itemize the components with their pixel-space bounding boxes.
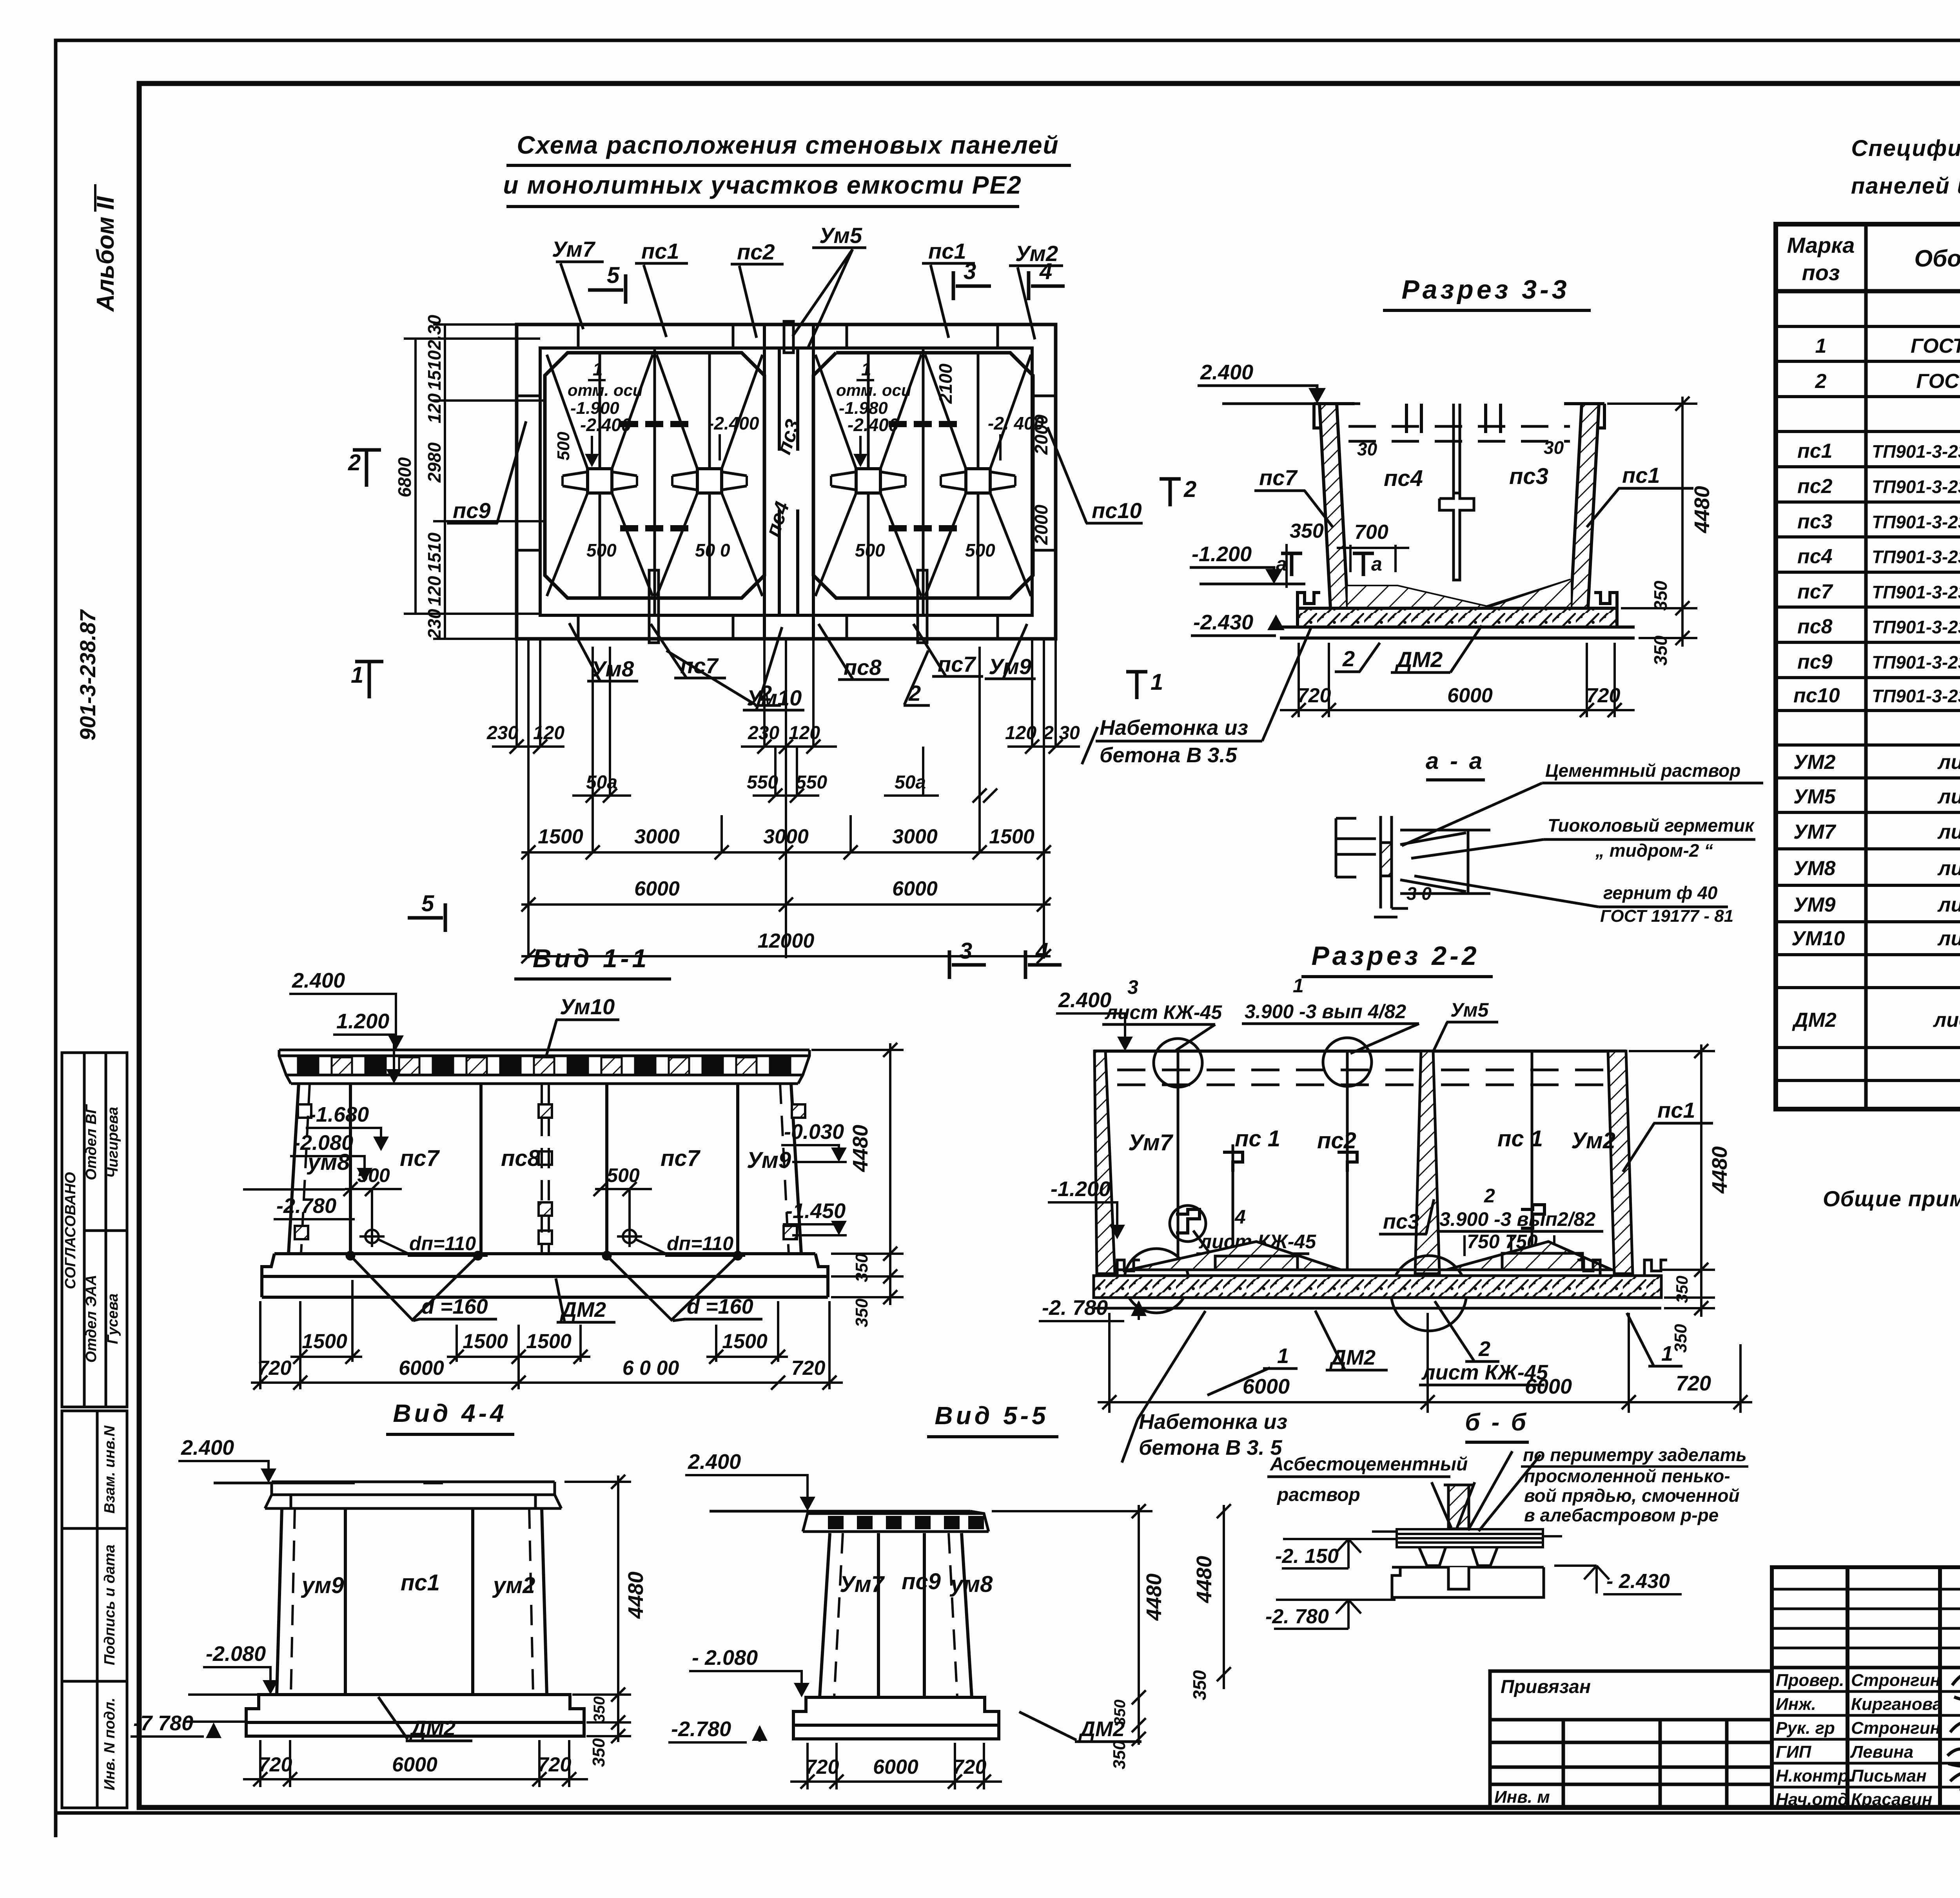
svg-text:6000: 6000 [1243, 1375, 1290, 1398]
svg-text:пс3: пс3 [1383, 1210, 1419, 1233]
svg-text:пс1: пс1 [928, 239, 966, 263]
svg-text:901-3-238.87: 901-3-238.87 [75, 609, 100, 741]
svg-text:раствор: раствор [1276, 1485, 1360, 1505]
section 3-3 bottom dims [1280, 643, 1635, 717]
plan outer wall [517, 324, 1056, 639]
svg-text:720: 720 [953, 1756, 987, 1778]
svg-text:гернит ф 40: гернит ф 40 [1603, 883, 1718, 903]
svg-text:пс1: пс1 [401, 1570, 440, 1595]
svg-text:Отдел ЭАА: Отдел ЭАА [83, 1275, 100, 1363]
view 5-5 level -2.080 [689, 1646, 809, 1697]
section 2-2 right wall [1608, 1051, 1633, 1274]
svg-text:пс3: пс3 [1797, 510, 1833, 533]
svg-text:б - б: б - б [1465, 1409, 1528, 1436]
detail б-б asbestos funnel arrows [1432, 1482, 1475, 1528]
svg-text:Инж.: Инж. [1776, 1695, 1816, 1714]
svg-text:350: 350 [1650, 580, 1671, 611]
plan chamber 2 octagon [813, 353, 1033, 598]
view 1-1 base slab [262, 1254, 828, 1297]
svg-text:Инв. N подл.: Инв. N подл. [102, 1698, 118, 1790]
svg-text:ДМ2: ДМ2 [409, 1717, 456, 1740]
view 4-4 level -2.780 [131, 1711, 246, 1738]
svg-text:Набетонка из: Набетонка из [1100, 716, 1248, 740]
section 3-3 floor slopes [1348, 580, 1571, 621]
svg-text:6800: 6800 [394, 457, 415, 497]
svg-text:-0.030: -0.030 [784, 1120, 844, 1144]
svg-text:ТП901-3-238.87.КЖИ41. 0.0.0-01: ТП901-3-238.87.КЖИ41. 0.0.0-01 [1872, 477, 1960, 497]
svg-text:- 2.080: - 2.080 [692, 1646, 758, 1670]
plan chamber 1 octagon [545, 353, 764, 598]
svg-text:Стронгин: Стронгин [1851, 1719, 1940, 1738]
plan bottom extension lines [517, 639, 1056, 958]
stamp vertical texts [62, 1104, 121, 1790]
svg-text:1: 1 [1277, 1344, 1289, 1368]
svg-text:Ум7: Ум7 [1128, 1130, 1174, 1155]
view 1-1 anchor squares [295, 1104, 805, 1244]
svg-text:пс9: пс9 [902, 1569, 941, 1594]
plan chamber 2 sump squares [856, 469, 990, 493]
svg-text:пс1: пс1 [1622, 463, 1660, 488]
svg-text:пс 1: пс 1 [1497, 1126, 1543, 1151]
svg-text:Привязан: Привязан [1501, 1677, 1591, 1697]
svg-text:-2. 780: -2. 780 [1042, 1296, 1108, 1320]
view 4-4 level -2.080 [188, 1642, 278, 1695]
svg-text:УМ10: УМ10 [1791, 927, 1845, 950]
svg-text:пс7: пс7 [1797, 580, 1833, 603]
svg-text:Разрез 2-2: Разрез 2-2 [1311, 941, 1479, 971]
plan left dim labels [394, 315, 445, 640]
svg-text:пс3: пс3 [772, 417, 805, 457]
svg-text:1: 1 [861, 359, 871, 379]
section 2-2 top line [1094, 1050, 1626, 1053]
svg-text:720: 720 [805, 1756, 839, 1778]
svg-text:листы КЖ 38÷40: листы КЖ 38÷40 [1933, 1009, 1960, 1031]
plan callout Ум2 [1009, 241, 1063, 339]
svg-text:-7 780: -7 780 [133, 1711, 193, 1735]
plan bottom dim row 500/550 [572, 794, 939, 797]
svg-text:500: 500 [554, 431, 573, 460]
svg-text:-2.400: -2.400 [848, 415, 899, 435]
svg-text:УМ5: УМ5 [1793, 785, 1836, 808]
plan section marks top [348, 259, 1065, 979]
section 3-3 title [1383, 275, 1591, 310]
plan sump swale channels [563, 472, 1015, 490]
svg-text:2.400: 2.400 [688, 1450, 741, 1474]
section 2-2 bottom dims [1098, 1313, 1752, 1413]
svg-text:„ тидром-2 “: „ тидром-2 “ [1595, 840, 1713, 861]
plan corner section mark T1 [1126, 669, 1163, 699]
svg-text:в алебастровом р-ре: в алебастровом р-ре [1524, 1505, 1719, 1525]
svg-text:4480: 4480 [624, 1572, 648, 1619]
plan middle wall rotated labels [761, 417, 805, 539]
svg-text:пс7: пс7 [1259, 465, 1298, 490]
section 3-3 top rib ticks [1406, 404, 1501, 433]
svg-text:и монолитных участков емкос: и монолитных участков емкости РЕ2 [503, 171, 1022, 199]
svg-text:50а: 50а [895, 772, 926, 793]
svg-text:пс7: пс7 [661, 1146, 701, 1171]
section 2-2 base slab [1094, 1260, 1667, 1308]
svg-text:Общие примечания см. лист: Общие примечания см. лист кж-36. [1823, 1186, 1960, 1211]
svg-text:пс9: пс9 [453, 498, 491, 523]
svg-text:350: 350 [1110, 1740, 1129, 1769]
svg-text:1500: 1500 [302, 1330, 347, 1353]
svg-text:2: 2 [1478, 1337, 1490, 1361]
plan chamber 1 funnel diagonals [547, 355, 762, 596]
section 2-2 left wall [1094, 1051, 1115, 1274]
detail б-б level -2.780 [1265, 1600, 1396, 1629]
svg-text:12000: 12000 [758, 930, 815, 952]
svg-text:ГОСТ 19177 - 81: ГОСТ 19177 - 81 [1600, 906, 1733, 926]
section 2-2 bottom callouts [1207, 1301, 1682, 1395]
svg-text:6000: 6000 [892, 877, 938, 900]
plan callout пс10 [1047, 427, 1143, 523]
svg-text:350: 350 [589, 1738, 608, 1767]
svg-text:4: 4 [1039, 259, 1052, 284]
svg-text:УМ9: УМ9 [1793, 894, 1836, 916]
svg-text:500: 500 [586, 540, 617, 560]
svg-text:4480: 4480 [849, 1125, 872, 1172]
svg-text:просмоленной пенько-: просмоленной пенько- [1524, 1466, 1730, 1486]
svg-text:листы КЖ 46;49: листы КЖ 46;49 [1937, 894, 1960, 916]
section 2-2 joint verticals [1178, 1051, 1532, 1270]
section 3-3 callout пс1 [1587, 463, 1693, 527]
svg-text:Ум5: Ум5 [819, 223, 862, 248]
svg-text:-2.400: -2.400 [580, 415, 632, 435]
svg-text:-2.400: -2.400 [708, 413, 759, 433]
plan chamber 2 panel joint verticals [868, 348, 978, 615]
plan ledge dashed bars [620, 424, 958, 528]
svg-text:пс8: пс8 [1797, 615, 1833, 638]
detail б-б level -2.430 [1554, 1566, 1682, 1594]
table body rows [1791, 297, 1960, 1031]
svg-text:пс1: пс1 [1657, 1098, 1695, 1122]
svg-text:ГИП: ГИП [1776, 1742, 1812, 1762]
svg-text:ТП901-3-238.87.КЖИ.42. 0. 0.0: ТП901-3-238.87.КЖИ.42. 0. 0.0 [1872, 512, 1960, 532]
plan level labels chamber 1 [554, 359, 759, 560]
view 4-4 level 2.400 [178, 1436, 443, 1483]
svg-text:пс2: пс2 [737, 239, 775, 264]
svg-text:6 0 00: 6 0 00 [622, 1357, 679, 1380]
title block staff labels [1776, 1671, 1942, 1809]
view 1-1 drain symbols dn=110 [359, 1226, 665, 1253]
view 5-5 title [927, 1401, 1058, 1437]
svg-text:Ум9: Ум9 [747, 1148, 791, 1173]
svg-text:720: 720 [258, 1753, 292, 1776]
svg-text:СОГЛАСОВАНО: СОГЛАСОВАНО [62, 1172, 79, 1289]
plan left dimension chain [404, 324, 545, 639]
section 2-2 title [1301, 941, 1493, 977]
view 1-1 callout Ум10 [546, 994, 619, 1058]
section 2-2 middle wall [1415, 1051, 1439, 1274]
Асбестоцементный раствор note [1267, 1454, 1468, 1505]
section 3-3 labels 2 ДМ2 [1335, 625, 1482, 673]
svg-text:пс1: пс1 [1797, 440, 1833, 462]
detail б-б level -2.150 [1275, 1539, 1398, 1568]
svg-text:Асбестоцементный: Асбестоцементный [1270, 1454, 1468, 1475]
svg-text:2980: 2980 [424, 442, 445, 483]
section 3-3 right wall [1564, 404, 1604, 608]
svg-text:3000: 3000 [763, 825, 809, 848]
svg-text:1: 1 [351, 662, 363, 688]
svg-text:Гусева: Гусева [105, 1293, 121, 1344]
svg-text:Спецификация к схеме распол: Спецификация к схеме расположения стенов… [1851, 136, 1960, 161]
svg-text:-1.200: -1.200 [1192, 542, 1252, 566]
svg-text:пс10: пс10 [1793, 684, 1840, 707]
svg-text:1510: 1510 [424, 532, 445, 573]
view 1-1 bottom dims [251, 1280, 843, 1390]
svg-text:Ум2: Ум2 [1571, 1128, 1615, 1153]
detail б-б legs and base [1392, 1547, 1544, 1597]
svg-text:Отдел ВГ: Отдел ВГ [83, 1104, 100, 1180]
svg-text:пс10: пс10 [1092, 498, 1142, 523]
svg-text:2.400: 2.400 [292, 969, 345, 992]
detail a-a callout thiokol [1411, 815, 1755, 861]
svg-text:УМ2: УМ2 [1793, 751, 1836, 774]
svg-text:6000: 6000 [634, 877, 680, 900]
svg-text:Письман: Письман [1851, 1766, 1927, 1786]
svg-text:1500: 1500 [722, 1330, 768, 1353]
svg-text:УМ7: УМ7 [1793, 821, 1837, 843]
svg-text:ТП901-3-238.87.КЖИ.43.0.0.0-04: ТП901-3-238.87.КЖИ.43.0.0.0-04 [1872, 617, 1960, 637]
svg-text:бетона В 3.5: бетона В 3.5 [1100, 743, 1237, 767]
svg-text:1: 1 [1815, 335, 1827, 357]
plan chamber 1 panel joint verticals [600, 348, 710, 615]
main title line 2 [503, 171, 1022, 207]
svg-text:-2. 150: -2. 150 [1275, 1545, 1339, 1568]
view 1-1 right dim 4480 [811, 1043, 904, 1327]
svg-text:d =160: d =160 [421, 1295, 488, 1318]
detail б-б boards stack [1372, 1529, 1562, 1547]
svg-text:700: 700 [1354, 521, 1388, 544]
svg-text:ДМ2: ДМ2 [1395, 647, 1443, 672]
svg-text:2.400: 2.400 [1058, 988, 1111, 1012]
view 1-1 panel labels [307, 1146, 791, 1175]
svg-text:отм. оси: отм. оси [568, 381, 643, 399]
svg-text:ДМ2: ДМ2 [560, 1298, 606, 1322]
view 4-4 right dim 4480 [564, 1475, 648, 1767]
svg-text:3: 3 [1127, 976, 1138, 998]
svg-text:ТП901-3-238.87.КЖИ.42.0.0.0-01: ТП901-3-238.87.КЖИ.42.0.0.0-01 [1872, 547, 1960, 567]
section 3-3 level -2.430 [1191, 611, 1341, 636]
svg-text:dп=110: dп=110 [409, 1233, 476, 1254]
svg-text:350: 350 [1671, 1324, 1690, 1353]
svg-text:550: 550 [796, 772, 827, 793]
plan chamber 2 funnel diagonals [815, 355, 1031, 596]
svg-text:листы КЖ 46;49: листы КЖ 46;49 [1937, 857, 1960, 880]
svg-text:пс8: пс8 [501, 1146, 541, 1171]
svg-text:2100: 2100 [935, 363, 956, 404]
svg-text:Ум7: Ум7 [840, 1572, 885, 1597]
section 3-3 dim 350 700 [1287, 520, 1409, 588]
view 5-5 base [793, 1697, 999, 1739]
svg-text:Набетонка из: Набетонка из [1139, 1410, 1287, 1434]
view 4-4 base [246, 1695, 584, 1736]
section 2-2 floor mounds [1115, 1242, 1614, 1270]
svg-text:2: 2 [1815, 370, 1827, 393]
plan rotated 2000 dims [935, 363, 1051, 545]
svg-text:230: 230 [748, 723, 779, 743]
view 1-1 right levels [781, 1120, 847, 1235]
view 1-1 left levels [243, 969, 404, 1219]
svg-text:Рук. гр: Рук. гр [1776, 1719, 1835, 1738]
svg-text:720: 720 [1297, 684, 1331, 707]
svg-text:-2.080: -2.080 [206, 1642, 266, 1666]
view 5-5 secondary dim 4480 [1189, 1504, 1231, 1704]
svg-text:-2. 780: -2. 780 [1265, 1605, 1329, 1628]
section 3-3 interior labels [1357, 437, 1564, 491]
view 5-5 right dim 4480 [988, 1504, 1166, 1769]
svg-text:6000: 6000 [399, 1357, 444, 1380]
svg-text:120: 120 [424, 576, 445, 606]
detail б-б post [1444, 1485, 1474, 1529]
detail б-б title [1465, 1409, 1529, 1442]
left margin approval stamp table [62, 1053, 127, 1808]
svg-text:350: 350 [852, 1298, 871, 1327]
view 5-5 labels [840, 1569, 993, 1597]
svg-text:Схема расположения стеновых: Схема расположения стеновых панелей [517, 131, 1059, 159]
svg-text:30: 30 [1357, 439, 1377, 459]
svg-text:2: 2 [348, 450, 361, 475]
svg-text:УМ8: УМ8 [1793, 857, 1836, 880]
view 1-1 500 dims [343, 1164, 652, 1229]
plan level labels chamber 2 [836, 359, 1044, 560]
svg-text:листы КЖ 47;50: листы КЖ 47;50 [1937, 927, 1960, 950]
svg-text:Разрез 3-3: Разрез 3-3 [1401, 275, 1570, 305]
plan bottom dim row 12000 [521, 955, 1051, 957]
svg-text:350: 350 [591, 1697, 608, 1723]
section 3-3 right dim 4480 [1607, 397, 1714, 665]
svg-text:ТП901-3-238.87. КЖИ.43.00.0-11: ТП901-3-238.87. КЖИ.43.00.0-11 [1872, 686, 1960, 706]
view 4-4 labels [301, 1570, 535, 1598]
svg-text:Н.контр.: Н.контр. [1776, 1766, 1853, 1786]
section 2-2 level -2.780 [1039, 1296, 1147, 1321]
svg-text:500: 500 [965, 540, 995, 560]
svg-text:пс1: пс1 [641, 239, 679, 263]
svg-text:-1.450: -1.450 [786, 1199, 846, 1223]
svg-text:1500: 1500 [538, 825, 583, 848]
view 5-5 bottom dims [790, 1743, 1002, 1789]
svg-text:3: 3 [964, 259, 976, 284]
svg-text:Красавин: Красавин [1851, 1790, 1932, 1809]
plan callout Ум5 [793, 223, 866, 349]
plan dim ticks [510, 740, 1063, 963]
Набетонка leader to slab [1262, 627, 1311, 741]
svg-text:2.30: 2.30 [424, 315, 445, 350]
svg-text:720: 720 [1676, 1372, 1711, 1395]
svg-text:350: 350 [1111, 1700, 1129, 1726]
svg-text:пс9: пс9 [1797, 651, 1833, 673]
svg-text:350: 350 [852, 1253, 871, 1282]
plan bottom dim row 230/120 [492, 745, 1080, 748]
svg-text:350: 350 [1290, 520, 1324, 542]
svg-text:1.200: 1.200 [336, 1010, 389, 1033]
svg-text:Взам. инв.N: Взам. инв.N [102, 1425, 118, 1514]
section 2-2 level -1.200 [1048, 1177, 1125, 1239]
svg-text:панелей и монолитных участк: панелей и монолитных участков емкости РЕ… [1851, 173, 1960, 199]
svg-text:ТП901-3-238.87.КЖИ.43.0.0.0-03: ТП901-3-238.87.КЖИ.43.0.0.0-03 [1872, 582, 1960, 602]
main title line 1 [506, 131, 1071, 165]
svg-text:ум2: ум2 [492, 1573, 535, 1598]
signatures [1947, 1673, 1960, 1833]
plan callout Ум7 [552, 237, 604, 329]
Набетонка note lower [1122, 1311, 1287, 1463]
svg-text:2.400: 2.400 [1200, 361, 1253, 384]
svg-text:Цементный раствор: Цементный раствор [1545, 760, 1740, 781]
svg-text:1: 1 [593, 359, 603, 379]
view 4-4 label ДМ2 [378, 1697, 472, 1741]
section 3-3 bottom slab [1280, 593, 1635, 638]
plan middle wall [764, 324, 813, 639]
section 3-3 level mark 2.400 [1198, 361, 1360, 404]
svg-text:Альбом II: Альбом II [92, 196, 119, 312]
svg-text:dп=110: dп=110 [667, 1233, 733, 1254]
svg-text:720: 720 [791, 1357, 826, 1380]
view 5-5 level -2.780 [668, 1717, 768, 1742]
svg-text:d =160: d =160 [687, 1295, 753, 1318]
view 4-4 walls [277, 1508, 547, 1695]
svg-text:а - а: а - а [1426, 748, 1485, 774]
svg-text:ум8: ум8 [949, 1572, 993, 1597]
section 2-2 dashed water lines [1117, 1070, 1607, 1085]
view 5-5 label ДМ2 [1019, 1712, 1142, 1742]
svg-text:120: 120 [1005, 723, 1036, 743]
section 2-2 level 2.400 [1056, 988, 1133, 1051]
svg-text:50а: 50а [586, 772, 617, 793]
svg-text:листы КЖ 46;48: листы КЖ 46;48 [1937, 751, 1960, 774]
svg-text:Чигирева: Чигирева [105, 1107, 121, 1178]
svg-text:вой прядью, смоченной: вой прядью, смоченной [1524, 1485, 1740, 1506]
svg-text:отм. оси: отм. оси [836, 381, 911, 399]
svg-text:2000: 2000 [1031, 414, 1051, 455]
svg-text:Ум5: Ум5 [1450, 999, 1489, 1021]
view 5-5 slab dark segments [828, 1516, 984, 1529]
svg-text:1500: 1500 [989, 825, 1034, 848]
svg-text:500: 500 [855, 540, 885, 560]
plan drain tube symbols [649, 321, 927, 643]
svg-text:Вид 1-1: Вид 1-1 [533, 944, 650, 973]
left margin vertical label: Альбом II [92, 184, 119, 312]
svg-text:6000: 6000 [873, 1756, 918, 1778]
view 5-5 level 2.400 [685, 1450, 823, 1511]
section 3-3 water dashed lines [1348, 426, 1570, 441]
svg-text:3: 3 [960, 938, 972, 964]
plan callout пс1 (right) [922, 239, 975, 338]
table header texts [1787, 233, 1960, 285]
svg-text:Обозначение: Обозначение [1914, 245, 1960, 272]
section 2-2 anchor symbols [1176, 1152, 1544, 1233]
view 1-1 top slab band [279, 1050, 809, 1084]
view 4-4 top slab [265, 1482, 561, 1508]
svg-text:а: а [1371, 553, 1382, 575]
section 2-2 joint circles [1124, 1038, 1466, 1331]
svg-text:пс4: пс4 [1384, 466, 1423, 491]
svg-text:-2.430: -2.430 [1193, 611, 1253, 634]
section 3-3 level -1.200 [1190, 542, 1305, 584]
view 4-4 title [386, 1399, 514, 1434]
svg-text:5: 5 [421, 891, 434, 916]
svg-text:2000: 2000 [1031, 504, 1051, 545]
svg-text:- 2.430: - 2.430 [1606, 1570, 1670, 1593]
svg-text:4480: 4480 [1192, 1556, 1216, 1603]
view 1-1 slab hatched segments [298, 1057, 790, 1075]
svg-text:ТП901-3-238.87.КЖ41. 0. 0.0: ТП901-3-238.87.КЖ41. 0. 0.0 [1872, 441, 1960, 462]
view 4-4 bottom dims [243, 1740, 588, 1787]
plan chamber 1 sump squares [588, 469, 722, 493]
svg-text:Нач.отд: Нач.отд [1776, 1790, 1848, 1809]
svg-text:3 0: 3 0 [1406, 883, 1432, 904]
svg-text:6000: 6000 [1525, 1375, 1572, 1398]
plan callout пс2 [731, 239, 784, 338]
